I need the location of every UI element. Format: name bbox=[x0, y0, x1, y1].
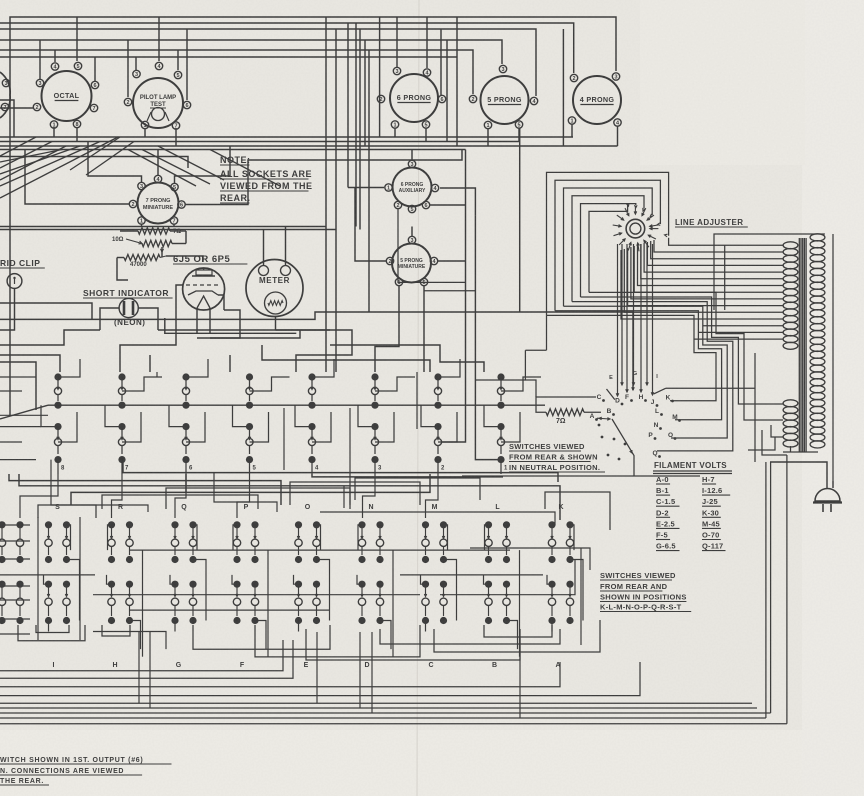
lever switch 6 bbox=[169, 359, 208, 474]
wire text block verticals bbox=[580, 548, 582, 645]
tube socket partial left bbox=[0, 72, 10, 118]
wire feed x465 bbox=[398, 209, 466, 282]
lever switch 2 bbox=[421, 359, 460, 474]
wire bank S rails bbox=[38, 517, 80, 640]
tube socket 4 PRONG bbox=[568, 73, 621, 127]
wire drop x447 bbox=[446, 40, 448, 142]
wire mid bus 2 bbox=[0, 141, 519, 143]
wire top bus 1 bbox=[10, 17, 616, 416]
switch bank O bbox=[294, 504, 330, 632]
wire mid bus 1 bbox=[0, 136, 573, 138]
wire 6aux leads bbox=[348, 150, 475, 262]
wire bottom bus short bbox=[0, 640, 640, 696]
wire vertical x465 bbox=[442, 150, 466, 443]
ac plug bbox=[813, 488, 842, 512]
wire drop 6prong pin6 bbox=[440, 29, 442, 95]
lever switch 3 bbox=[358, 373, 415, 474]
wire drop x369 bbox=[368, 50, 370, 312]
lever switch 1 bbox=[484, 373, 541, 474]
wire meter leads bbox=[264, 227, 286, 331]
short indicator label bbox=[83, 288, 173, 327]
wire feed x475 bbox=[424, 290, 475, 292]
resistor 10 ohm pot bbox=[112, 231, 186, 252]
transformer core bbox=[799, 238, 806, 452]
switch bank N bbox=[357, 504, 393, 657]
switch bank P bbox=[232, 504, 268, 657]
wire 7prong leads bbox=[25, 142, 462, 227]
tube socket OCTAL bbox=[33, 62, 98, 128]
wire group2 bottom drops bbox=[139, 632, 520, 718]
wire diagonals left bbox=[0, 137, 280, 198]
wire drop octal pin5 bbox=[76, 17, 78, 61]
paper crease bbox=[417, 0, 419, 796]
wire top bus 5 bbox=[0, 50, 473, 94]
wire row1 left stubs bbox=[0, 377, 48, 460]
wire drop x356 bbox=[355, 23, 357, 227]
tube socket PILOT LAMP TEST bbox=[124, 62, 190, 129]
filament selector fan bbox=[462, 388, 755, 476]
tube 6J5 bbox=[183, 268, 225, 310]
wire drop octal pin4 bbox=[54, 50, 56, 62]
wire grid clip lead bbox=[0, 288, 15, 330]
wire vertical x457 bbox=[456, 17, 458, 146]
wire row1 pass-through verticals bbox=[157, 372, 417, 505]
transformer filament winding upper bbox=[783, 242, 798, 349]
wire drop pilot pin5 bbox=[177, 50, 179, 70]
wire drop octal pin6 bbox=[94, 57, 96, 81]
wire selector verticals bbox=[609, 244, 658, 396]
tube socket 5 PRONG MINIATURE bbox=[386, 236, 437, 286]
wire plug leads bbox=[770, 462, 833, 488]
wire group2 top links bbox=[38, 478, 610, 530]
switch bank L bbox=[484, 504, 520, 657]
neon lamp bbox=[119, 298, 138, 317]
wire drop octal pin3 bbox=[39, 40, 41, 79]
bottom note text bbox=[0, 757, 172, 785]
resistor 47000 bbox=[117, 255, 166, 281]
wire drop 6prong pin4 bbox=[426, 17, 428, 68]
wire socket row1 pin drops bbox=[54, 124, 618, 146]
wire tube leads bbox=[165, 268, 296, 333]
wire adjuster loops bbox=[547, 172, 669, 315]
switch bank Q bbox=[170, 504, 206, 632]
lever switch 5 bbox=[233, 373, 290, 474]
wire neon leads bbox=[100, 308, 158, 330]
resistor 7 ohm top bbox=[120, 228, 186, 235]
wire drop x326 bbox=[325, 17, 327, 372]
wire top bus 2 bbox=[0, 23, 574, 73]
tube socket 5 PRONG bbox=[469, 65, 537, 129]
lever switch 4 bbox=[295, 359, 334, 474]
tube socket 7 PRONG MINIATURE bbox=[129, 175, 185, 224]
wire 5mini leads bbox=[375, 227, 466, 373]
rotary switch line adjuster bbox=[613, 206, 659, 252]
wire group2 left stubs bbox=[0, 525, 30, 634]
wire left edge stub 2 bbox=[0, 107, 33, 109]
wire drop pilot pin3 bbox=[135, 57, 137, 70]
switch bank R bbox=[107, 504, 143, 657]
wire bus y226 bbox=[0, 226, 326, 228]
wire drop x360 bbox=[359, 29, 361, 230]
wire mid bus 3 bbox=[0, 145, 618, 147]
lever switch 8 bbox=[41, 359, 80, 474]
wire drop x336 bbox=[335, 29, 337, 372]
label switches neutral bbox=[509, 442, 605, 472]
wire mid bus 4 bbox=[0, 149, 466, 151]
switch bank K bbox=[547, 504, 583, 632]
wire drop x365 bbox=[364, 40, 366, 146]
wire jungle rows bbox=[0, 303, 634, 410]
wire transformer taps bbox=[621, 238, 783, 339]
switch bank T partial bbox=[0, 521, 24, 624]
wire left edge stub 1 bbox=[0, 100, 14, 137]
wire top bus 3 bbox=[0, 29, 536, 96]
wire row1 to group2 drops bbox=[20, 474, 555, 525]
wire drop x519 bbox=[519, 128, 521, 312]
wire bus y229 bbox=[0, 229, 336, 231]
wire drop pilot pin6 bbox=[186, 29, 188, 100]
meter bbox=[246, 260, 303, 317]
filament volts table bbox=[653, 461, 732, 551]
grid clip bbox=[0, 258, 45, 288]
switch bank M bbox=[421, 504, 457, 632]
switch group bottom labels bbox=[53, 662, 561, 669]
wire bottom bus long bbox=[0, 703, 787, 724]
wire transformer frame bbox=[714, 234, 833, 481]
wire right drops bbox=[748, 353, 787, 724]
transformer primary winding bbox=[810, 234, 825, 448]
wire adjuster east runs bbox=[547, 292, 784, 451]
wire top bus 6 bbox=[0, 56, 457, 58]
wire group2 crossings bbox=[0, 548, 590, 649]
wire vertical x475 bbox=[475, 216, 497, 460]
wire vertical x563 bbox=[562, 29, 564, 146]
switch bank S bbox=[44, 504, 80, 632]
wire group2 bottom links bbox=[18, 620, 600, 660]
tube socket 6 PRONG AUXILIARY bbox=[385, 160, 439, 213]
wire row1 inter links bbox=[9, 460, 560, 520]
switch row1 long bus bbox=[0, 405, 48, 419]
note label bbox=[220, 155, 313, 203]
wire selector east stubs bbox=[0, 0, 1, 1]
wire drop 6prong pin3 bbox=[396, 17, 398, 67]
wire drop pilot pin2 bbox=[127, 40, 129, 97]
wire drop x380 bbox=[379, 17, 381, 137]
wire top bus 4 bbox=[0, 40, 502, 64]
transformer filament winding lower bbox=[783, 400, 798, 447]
wire mid bus 5 bbox=[0, 157, 188, 169]
wire resistor net bbox=[162, 252, 203, 262]
tube socket 6 PRONG bbox=[377, 67, 445, 128]
resistor 7 ohm selector bbox=[475, 315, 601, 425]
wire drop x348 bbox=[347, 23, 349, 188]
scan texture bbox=[0, 0, 1, 1]
lever switch 7 bbox=[105, 373, 162, 474]
wire drop pilot pin4 bbox=[158, 17, 160, 61]
label switches positions bbox=[600, 571, 691, 612]
